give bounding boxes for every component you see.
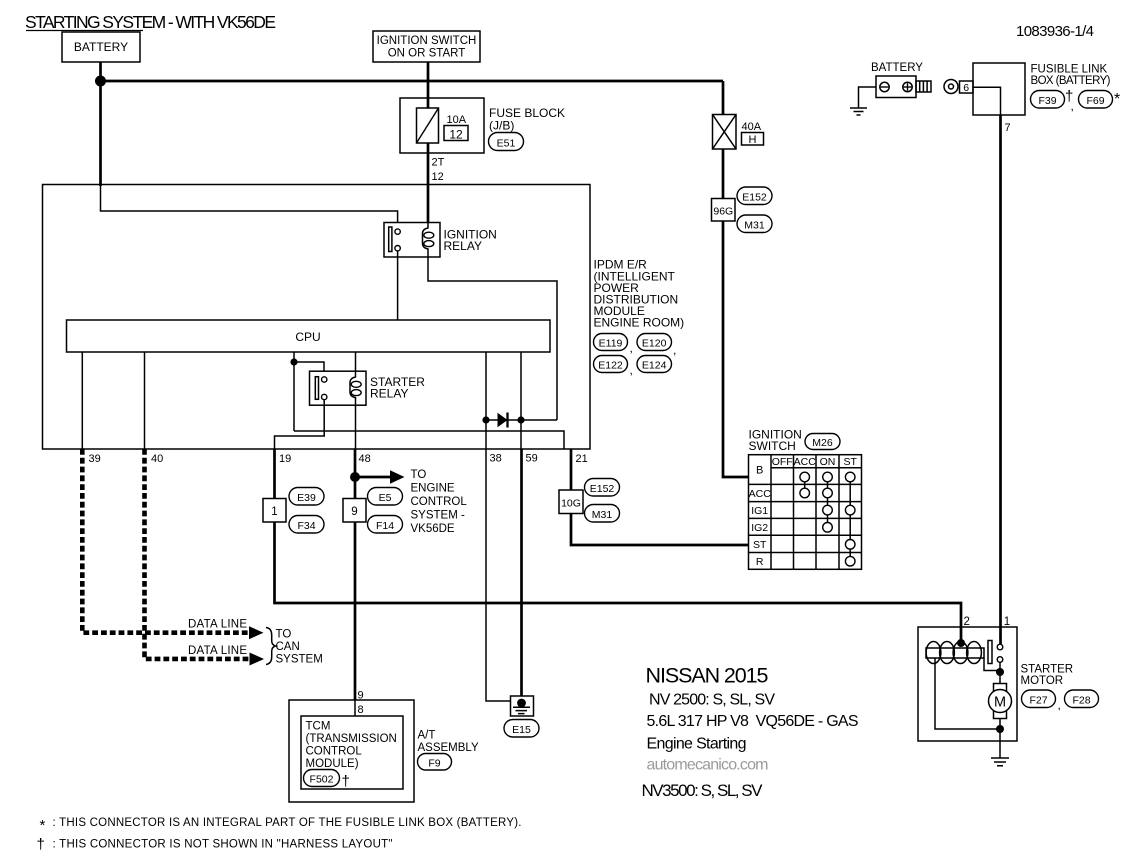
fuse block E51 — [400, 98, 565, 153]
junction pin 48 branch — [350, 472, 360, 482]
svg-text:BATTERY: BATTERY — [871, 62, 923, 74]
wire starter relay contact to pin 19 — [275, 400, 325, 449]
connector 1 E39 F34 — [263, 488, 324, 534]
wire 96G to ignition switch B — [723, 221, 749, 477]
TCM F502 — [301, 716, 403, 790]
wire fusible link to starter motor pin 1 — [999, 115, 1002, 644]
svg-text:DATA LINE: DATA LINE — [188, 619, 247, 631]
svg-text:ON: ON — [820, 456, 836, 468]
junction CPU branch — [290, 358, 297, 365]
junction diode cathode — [517, 416, 524, 423]
svg-text:(TRANSMISSION: (TRANSMISSION — [306, 733, 397, 745]
motor M — [989, 684, 1012, 719]
wire CPU to pin 38 — [485, 352, 487, 449]
wire coil link — [984, 658, 1000, 671]
arrow data line 1 — [249, 626, 264, 639]
svg-text:IG2: IG2 — [751, 522, 768, 534]
svg-text:automecanico.com: automecanico.com — [647, 757, 769, 774]
wire motor to ground — [999, 719, 1001, 759]
title — [25, 12, 276, 32]
svg-text:E39: E39 — [297, 492, 316, 504]
svg-text:F502: F502 — [310, 774, 334, 786]
connector 9 E5 F14 — [343, 488, 403, 534]
footnote dagger — [37, 836, 393, 853]
svg-text:Engine Starting: Engine Starting — [647, 736, 747, 753]
svg-text:TO: TO — [411, 469, 427, 481]
svg-text:ENGINE: ENGINE — [411, 483, 455, 495]
wire data line 2 dashed — [145, 449, 250, 659]
node to CAN system — [266, 628, 323, 666]
svg-text:RELAY: RELAY — [370, 387, 408, 401]
svg-text:: THIS CONNECTOR IS AN INTEGRA: : THIS CONNECTOR IS AN INTEGRAL PART OF … — [53, 817, 522, 829]
svg-text:E15: E15 — [512, 724, 531, 736]
svg-text:ST: ST — [843, 456, 857, 468]
svg-text:MODULE): MODULE) — [306, 758, 359, 770]
svg-text:VK56DE: VK56DE — [411, 523, 455, 535]
battery B2 top right — [871, 62, 931, 98]
IPDM E/R box — [43, 185, 591, 450]
footnote asterisk — [40, 817, 522, 834]
svg-text:SWITCH: SWITCH — [749, 439, 796, 453]
svg-text:6: 6 — [963, 82, 969, 94]
solenoid coil — [926, 642, 984, 664]
wire battery feed into IPDM — [101, 185, 398, 229]
svg-text:CONTROL: CONTROL — [306, 746, 363, 758]
wire relay contact to CPU — [397, 251, 399, 320]
wire pin 38 to ground E15 — [486, 449, 511, 701]
wire CPU to starter relay coil — [355, 352, 357, 371]
svg-text:ACC: ACC — [749, 488, 772, 500]
arrow to engine control — [390, 470, 405, 484]
svg-text:E120: E120 — [642, 338, 667, 350]
svg-text:E124: E124 — [642, 360, 667, 372]
connector 96G E152 M31 — [712, 187, 773, 233]
svg-text:DATA LINE: DATA LINE — [188, 645, 247, 657]
node to engine control system label — [411, 469, 468, 535]
svg-text:TCM: TCM — [306, 721, 331, 733]
solenoid plunger — [988, 641, 992, 664]
svg-text:*: * — [40, 817, 46, 834]
svg-text:96G: 96G — [713, 206, 733, 218]
wire CPU to starter relay contact — [294, 352, 324, 431]
svg-text:B: B — [756, 465, 763, 477]
battery B1 — [62, 32, 140, 62]
svg-text:ACC: ACC — [794, 456, 817, 468]
svg-text:,: , — [630, 363, 633, 377]
junction battery rail — [95, 76, 106, 87]
wire main power rail — [101, 80, 724, 83]
wire data line 1 dashed — [82, 449, 249, 633]
svg-text:BATTERY: BATTERY — [74, 40, 128, 54]
svg-text:40A: 40A — [742, 121, 762, 133]
starter motor F27 F28 — [918, 616, 1017, 741]
ground E15 — [504, 696, 539, 737]
A/T assembly F9 label — [418, 730, 479, 771]
svg-text:NV 2500: S, SL, SV: NV 2500: S, SL, SV — [649, 692, 775, 709]
svg-text:,: , — [673, 343, 676, 357]
svg-text:†: † — [342, 773, 350, 790]
svg-text:M31: M31 — [744, 220, 765, 232]
svg-text:STARTING SYSTEM - WITH VK56DE: STARTING SYSTEM - WITH VK56DE — [25, 12, 276, 32]
wire pin 19 to starter motor — [275, 449, 962, 643]
wire starter relay coil to pin 48 — [355, 405, 357, 449]
fusible link box battery F39 F69 — [973, 63, 1120, 115]
svg-text:†: † — [37, 836, 45, 853]
svg-text:SYSTEM -: SYSTEM - — [411, 510, 465, 522]
svg-text:CPU: CPU — [295, 330, 320, 344]
starter relay — [310, 371, 426, 405]
svg-text:38: 38 — [490, 453, 502, 465]
ignition switch M26 table — [749, 455, 862, 570]
wire coil return — [935, 658, 1000, 729]
svg-text:10A: 10A — [447, 114, 467, 126]
svg-text:*: * — [1114, 91, 1120, 108]
svg-text:F39: F39 — [1038, 95, 1056, 107]
svg-text:19: 19 — [279, 453, 291, 465]
svg-text:5.6L 317 HP V8 VQ56DE - GAS: 5.6L 317 HP V8 VQ56DE - GAS — [647, 713, 859, 730]
svg-text:10G: 10G — [561, 498, 581, 510]
svg-text:F69: F69 — [1086, 95, 1104, 107]
svg-text:12: 12 — [432, 171, 444, 183]
connector ring terminal 6 — [944, 80, 973, 95]
svg-text:NV3500: S, SL, SV: NV3500: S, SL, SV — [642, 781, 764, 800]
svg-text:F9: F9 — [428, 758, 440, 770]
svg-text:1: 1 — [271, 506, 277, 518]
svg-text:E5: E5 — [379, 492, 392, 504]
svg-text:ASSEMBLY: ASSEMBLY — [418, 742, 479, 754]
node ignition switch on or start — [373, 31, 480, 62]
wire 40A to 96G — [722, 149, 725, 199]
wire ignition switch feed — [427, 62, 430, 223]
svg-text:39: 39 — [89, 453, 101, 465]
svg-text:F34: F34 — [297, 520, 315, 532]
IPDM E/R labels E119 E120 E122 E124 — [594, 258, 685, 377]
svg-text:59: 59 — [526, 453, 538, 465]
svg-text:MOTOR: MOTOR — [1021, 675, 1064, 687]
svg-text:OFF: OFF — [772, 456, 793, 468]
svg-text:F28: F28 — [1072, 695, 1090, 707]
svg-text:IG1: IG1 — [751, 505, 768, 517]
wire CPU to pin 40 — [144, 352, 146, 449]
svg-text:M: M — [994, 695, 1006, 711]
wire pin 59 to ground E15 — [520, 449, 523, 703]
diode D1 — [498, 413, 508, 428]
ground starter motor — [991, 758, 1009, 766]
svg-text:CAN: CAN — [276, 641, 300, 653]
connector 10G E152 M31 — [559, 479, 620, 523]
svg-text:E152: E152 — [590, 483, 615, 495]
svg-text:E152: E152 — [742, 192, 767, 204]
ignition switch M26 label — [749, 428, 841, 454]
svg-text:M31: M31 — [592, 509, 613, 521]
wire CPU to pin 59 — [520, 352, 522, 449]
svg-text:H: H — [749, 134, 757, 146]
wire diode row — [486, 419, 557, 421]
svg-text:ENGINE ROOM): ENGINE ROOM) — [594, 316, 685, 330]
svg-text:FUSIBLE LINK: FUSIBLE LINK — [1031, 64, 1108, 76]
junction diode anode — [482, 416, 489, 423]
junction coil pin 2 — [957, 639, 965, 647]
svg-text:21: 21 — [576, 453, 588, 465]
wire TCM pin 8 — [354, 700, 356, 716]
svg-text:R: R — [756, 556, 764, 568]
svg-text:ON OR START: ON OR START — [388, 48, 466, 60]
svg-text:CONTROL: CONTROL — [411, 496, 468, 508]
svg-text:A/T: A/T — [418, 730, 436, 742]
svg-text:,: , — [630, 341, 633, 355]
A/T assembly box — [289, 700, 414, 802]
svg-text:F27: F27 — [1029, 695, 1047, 707]
svg-text:RELAY: RELAY — [444, 239, 482, 253]
svg-text:,: , — [1058, 698, 1061, 712]
starter motor label — [1021, 664, 1099, 713]
ignition relay — [384, 223, 497, 258]
svg-text:40: 40 — [151, 453, 163, 465]
solenoid contacts — [997, 644, 1003, 662]
svg-text:1: 1 — [1004, 616, 1010, 628]
CPU U1 — [67, 320, 551, 352]
svg-text:ST: ST — [753, 539, 767, 551]
wire contact to motor — [999, 662, 1001, 683]
wire rail to 40A fusible link — [722, 81, 725, 115]
wire relay coil output — [428, 257, 557, 420]
wire battery down — [99, 62, 102, 186]
svg-text:: THIS CONNECTOR IS NOT SHOWN: : THIS CONNECTOR IS NOT SHOWN IN "HARNES… — [53, 839, 393, 851]
svg-text:E51: E51 — [497, 138, 516, 150]
svg-text:SYSTEM: SYSTEM — [276, 654, 323, 666]
svg-text:M26: M26 — [812, 437, 833, 449]
svg-text:1083936-1/4: 1083936-1/4 — [1016, 23, 1094, 40]
svg-text:(J/B): (J/B) — [489, 119, 514, 133]
svg-text:IGNITION SWITCH: IGNITION SWITCH — [377, 35, 477, 47]
svg-text:TO: TO — [276, 629, 292, 641]
wire CPU to pin 39 — [81, 352, 83, 449]
svg-text:,: , — [1071, 99, 1074, 113]
svg-text:NISSAN 2015: NISSAN 2015 — [646, 664, 769, 688]
svg-text:STARTER: STARTER — [1021, 664, 1074, 676]
svg-text:E122: E122 — [598, 360, 623, 372]
svg-text:2: 2 — [964, 616, 970, 628]
svg-text:48: 48 — [359, 453, 371, 465]
vehicle info block — [642, 664, 859, 801]
svg-text:2T: 2T — [432, 157, 445, 169]
svg-text:9: 9 — [351, 506, 357, 518]
junction motor bottom — [996, 725, 1004, 733]
arrow data line 2 — [250, 653, 265, 666]
wire pin 48 to TCM — [354, 449, 357, 700]
wire internal to pin 21 — [294, 431, 564, 449]
junction motor top — [996, 668, 1004, 676]
svg-text:F14: F14 — [376, 520, 394, 532]
wire pin 21 to 10G to ignition switch ST — [571, 449, 749, 545]
ground battery B2 — [850, 87, 876, 115]
fusible link 40A H — [713, 115, 764, 150]
svg-text:8: 8 — [358, 704, 364, 716]
svg-text:BOX (BATTERY): BOX (BATTERY) — [1031, 75, 1111, 87]
svg-text:7: 7 — [1005, 122, 1011, 134]
svg-text:E119: E119 — [599, 338, 623, 350]
wire arrow to engine control — [355, 476, 391, 479]
svg-text:12: 12 — [449, 128, 463, 142]
